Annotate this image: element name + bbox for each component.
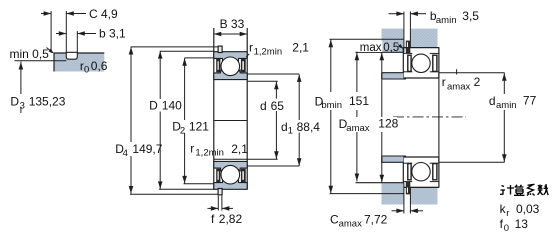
housing lower left lip block [382,183,404,205]
shield right lower [241,169,246,183]
shield right lower right drawing [433,164,437,180]
label r 1,2min 2,1 upper chamfer [246,54,249,57]
dimension D2 121 shield recess diameter [184,58,186,120]
dimension b 3,1 [56,33,66,35]
svg-text:1: 1 [288,126,293,137]
svg-text:0,03: 0,03 [516,202,540,216]
svg-text:bmin: bmin [321,100,342,111]
outer ring lower section [214,180,247,190]
svg-text:4: 4 [123,148,128,159]
shield right upper right drawing [433,55,437,71]
housing groove left wall extended (bamin ext) [403,12,405,53]
groove cut in detail view [66,52,77,59]
svg-text:min 0,5: min 0,5 [10,47,50,61]
housing upper bore line [410,47,439,49]
svg-text:121: 121 [189,119,209,133]
svg-text:77: 77 [523,93,537,107]
svg-text:r: r [506,208,509,219]
shield left upper [216,59,220,73]
svg-text:33: 33 [231,17,245,31]
svg-text:0,6: 0,6 [91,59,108,73]
dimension d1 88,4 shoulder diameter [298,74,300,166]
svg-text:2,82: 2,82 [219,212,243,226]
bearing lower section outline - outer ring [403,181,412,183]
dimension da min 77 shaft abutment diameter [503,73,505,94]
shield right upper [241,59,246,73]
svg-text:149,7: 149,7 [132,142,162,156]
outer ring upper section [214,52,247,62]
svg-text:b 3,1: b 3,1 [99,27,126,41]
extension line groove left wall [65,11,67,53]
svg-text:D: D [149,98,158,112]
bearing bore centerline [214,120,247,122]
dimension C 4,9 [41,13,51,15]
svg-text:3,5: 3,5 [462,9,479,23]
label max 0,5 with leader [358,41,382,52]
bearing outline left face [213,28,215,190]
svg-text:r: r [442,75,446,89]
svg-text:amax: amax [346,123,369,134]
inner ring upper section [214,70,247,80]
svg-text:0: 0 [504,223,509,234]
bearing outline right face [246,28,248,190]
svg-text:13: 13 [515,217,529,231]
svg-text:65: 65 [271,99,285,113]
svg-text:135,23: 135,23 [29,94,66,108]
dimension Db min 151 housing groove diameter [330,39,332,92]
svg-text:d: d [281,120,288,134]
ramax leader tick [456,69,458,74]
extension line left face [50,11,52,53]
shaft step surface lower [439,161,505,163]
ball lower [221,165,240,184]
housing lower lip top face line [356,182,404,184]
svg-text:d: d [489,94,496,108]
snap ring groove detail: ring cross-section [54,53,104,72]
ball lower right drawing [412,163,430,181]
svg-text:B: B [220,17,228,31]
housing groove bottom level line lower [330,193,404,195]
dimension f 2,82 snap ring groove width [217,196,219,211]
snap ring lower in housing groove [406,182,411,195]
groove bottom line (D3 level) [14,60,66,62]
svg-text:2,1: 2,1 [231,142,248,156]
svg-text:r: r [249,40,253,54]
svg-text:D: D [10,94,19,108]
bearing upper section outline - outer ring [403,47,439,49]
shaft shoulder block left upper [382,73,404,79]
Camax extension lines [403,183,405,214]
svg-text:3: 3 [20,100,25,111]
svg-text:d: d [260,99,267,113]
chinese label: calculation factors [500,184,548,196]
housing upper left lip block [382,29,404,53]
svg-text:max: max [360,42,382,54]
label Damax 128 [337,117,397,132]
ball upper right drawing [412,54,430,72]
svg-text:C 4,9: C 4,9 [89,7,118,21]
dimension D3 135,23 [20,62,22,94]
shield left lower right drawing [408,164,411,180]
bearing upper section outline - inner ring [403,71,412,73]
svg-text:88,4: 88,4 [297,120,321,134]
ball upper [221,57,240,76]
svg-text:0,5: 0,5 [383,42,399,54]
shield left upper right drawing [408,55,411,71]
svg-text:0: 0 [84,64,89,75]
snap ring upper in housing groove [406,41,411,54]
dimension D4 149,7 snap ring outside diameter [130,47,132,142]
dimension b amin 3,5 [389,13,404,15]
housing lower main block [410,187,437,204]
shaft shoulder block left lower [382,156,404,162]
dimension D 140 outside diameter [159,51,161,99]
svg-text:r: r [190,141,194,155]
shield left lower [216,169,220,183]
svg-text:2: 2 [180,125,185,136]
housing groove top level line [330,38,404,40]
bearing lower section outline - inner ring [403,156,439,158]
snap ring lower on outer ring [218,189,222,195]
svg-text:1,2min: 1,2min [254,46,283,57]
dimension B 33 [214,33,247,35]
svg-text:2: 2 [474,75,481,89]
dimension Da max 128 housing abutment diameter [381,52,383,182]
svg-text:140: 140 [162,98,182,112]
housing upper lip bottom face line [356,51,404,53]
svg-text:amin: amin [436,15,457,26]
snap ring upper on outer ring [218,46,222,52]
svg-text:1,2min: 1,2min [195,147,224,158]
dimension line mid 151 [356,52,358,92]
svg-text:151: 151 [349,94,369,108]
centerline axis right drawing [393,116,466,118]
svg-text:amin: amin [496,100,517,111]
inner ring lower section [214,161,247,171]
housing groove right wall extended (bamin ext) [409,12,411,48]
dimension C amax 7,72 [392,210,404,212]
housing lower bore line [410,186,437,188]
extension line groove right wall [76,31,78,53]
housing upper main block [410,29,437,48]
svg-text:amax: amax [339,218,362,229]
svg-text:128: 128 [378,117,398,131]
label Dbmin 151 [313,94,368,109]
dimension d 65 bore diameter [275,82,277,159]
svg-text:amax: amax [447,81,470,92]
shaft step right of bearing upper [438,73,440,162]
svg-text:7,72: 7,72 [364,212,388,226]
svg-text:2,1: 2,1 [292,40,309,54]
